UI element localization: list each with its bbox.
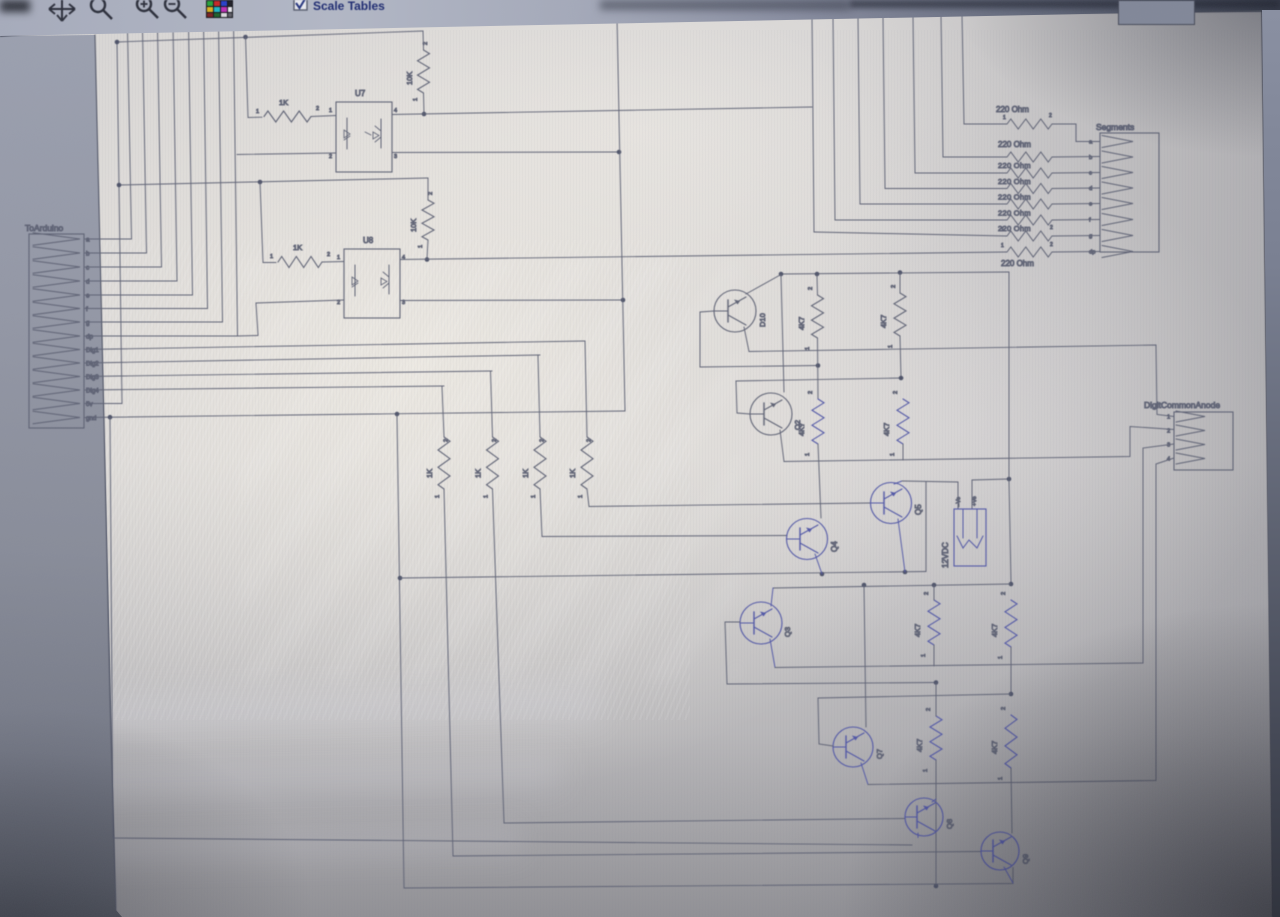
pin 2: [428, 192, 434, 195]
resistor R2 10K: [418, 50, 430, 93]
riser 5v: [117, 42, 122, 404]
wire Q8 collector: [932, 799, 936, 802]
svg-text:e: e: [1089, 202, 1092, 208]
label U8: [363, 236, 374, 245]
svg-text:Dig2: Dig2: [86, 361, 99, 368]
wire gnd long: [85, 411, 625, 418]
junction: [621, 298, 626, 303]
junction: [932, 583, 937, 588]
right scrollbar strip: [1262, 10, 1280, 917]
resistor R4 10K: [422, 200, 434, 240]
junction: [398, 576, 403, 581]
pin 1: [413, 98, 419, 101]
wires segment pins a-dp: [85, 239, 258, 336]
label Segments: [1096, 122, 1134, 132]
label R3 1K: [293, 243, 302, 252]
svg-text:220 Ohm: 220 Ohm: [998, 161, 1031, 170]
wire D10 collector: [746, 275, 781, 295]
pin 1: [921, 654, 927, 657]
svg-text:1: 1: [998, 777, 1004, 780]
junction: [898, 270, 903, 275]
wire R13 bottom: [933, 645, 935, 666]
resistor R11 4K7: [812, 399, 824, 444]
wire 10K2 bottom: [427, 240, 428, 260]
wire Q2 collector riser: [781, 274, 784, 392]
svg-text:g: g: [1089, 234, 1092, 240]
pin 1: [888, 345, 894, 348]
pin 2: [926, 708, 932, 711]
wire R14 bottom: [1010, 647, 1012, 694]
label 1K: [425, 469, 434, 478]
U7 LED: [344, 118, 350, 149]
svg-text:4: 4: [394, 108, 397, 114]
U8 LED: [352, 265, 358, 296]
svg-text:ToArduino: ToArduino: [25, 223, 64, 233]
svg-text:1: 1: [329, 108, 332, 114]
svg-text:2: 2: [1049, 113, 1052, 119]
svg-text:2: 2: [540, 439, 546, 442]
svg-text:2: 2: [587, 439, 593, 442]
label R1 1K: [279, 98, 288, 107]
junction: [117, 183, 122, 188]
pin 1: [998, 656, 1004, 659]
wire row A bottom to pin1: [749, 345, 1174, 417]
svg-text:1: 1: [805, 347, 811, 350]
svg-text:+Ve: +Ve: [972, 496, 978, 506]
svg-text:D10: D10: [758, 313, 767, 327]
junction: [258, 180, 263, 185]
svg-text:b: b: [86, 251, 90, 258]
wire R10 top: [899, 273, 901, 294]
label 1K: [521, 469, 530, 478]
wire 1K R5 top: [442, 386, 444, 437]
svg-text:1: 1: [1167, 415, 1170, 421]
wire Q7 collector riser: [864, 585, 866, 727]
wire gnd mid: [400, 572, 926, 579]
bus row B top: [736, 378, 903, 381]
bus row C top: [773, 584, 1011, 588]
junction: [862, 583, 867, 588]
wire R15 top: [935, 683, 937, 717]
pin 1: [923, 769, 929, 772]
svg-text:4K7: 4K7: [990, 741, 999, 754]
junction: [425, 257, 430, 262]
svg-text:a: a: [86, 237, 90, 244]
junction: [903, 570, 908, 575]
resistor R1 1K: [264, 111, 311, 122]
wire U7 pin4 net: [392, 107, 812, 115]
svg-text:--Ve: --Ve: [956, 497, 962, 507]
wire D10 base: [700, 311, 818, 367]
resistor R6 1K: [487, 437, 499, 489]
transistor Q2: [750, 393, 792, 435]
svg-text:220 Ohm: 220 Ohm: [998, 177, 1031, 186]
wire D10 emitter: [744, 327, 749, 352]
svg-text:3: 3: [394, 154, 397, 160]
svg-text:2: 2: [444, 439, 450, 442]
pin 2: [1001, 592, 1007, 595]
wire Q4 emitter: [815, 554, 822, 574]
zoom out icon: [165, 0, 186, 18]
label DigitCommonAnode: [1144, 400, 1220, 410]
pin 2: [587, 439, 593, 442]
wire 1K R7 top: [538, 355, 540, 437]
svg-text:Q3: Q3: [783, 627, 792, 637]
svg-text:2: 2: [423, 42, 429, 45]
wire gnd bottom: [404, 868, 1013, 889]
sheet top border: [0, 11, 1262, 36]
label D10: [758, 313, 767, 327]
transistor Q5: [871, 483, 912, 524]
svg-text:f: f: [86, 306, 88, 313]
connector J2 Segments: [1100, 133, 1159, 258]
svg-text:gnd: gnd: [86, 415, 97, 422]
segment pin letters: [1089, 140, 1095, 256]
wire R13 top: [933, 585, 935, 600]
svg-text:2: 2: [1050, 242, 1053, 248]
pin 1: [531, 495, 537, 498]
wire R8 bottom to Q5 base: [587, 489, 870, 507]
svg-text:4K7: 4K7: [913, 624, 922, 637]
svg-text:1K: 1K: [293, 243, 302, 252]
transistor Q4: [787, 519, 828, 560]
wire row D bottom to pin4: [868, 458, 1174, 785]
labels 220 Ohm: [996, 105, 1053, 268]
wire R6 bottom to Q8 base: [493, 489, 906, 823]
svg-text:2: 2: [1050, 225, 1053, 231]
sheet left edge: [95, 35, 116, 910]
pin 2: [808, 287, 814, 290]
wire Dig1 net: [85, 341, 585, 350]
pin 1: [270, 254, 273, 260]
svg-text:Q4: Q4: [830, 541, 839, 552]
wire 10K bottom: [423, 93, 426, 114]
label R12 4K7: [882, 423, 891, 436]
U8 pins: [337, 255, 405, 306]
svg-text:220 Ohm: 220 Ohm: [998, 193, 1031, 202]
svg-text:1: 1: [890, 453, 896, 456]
glare bands bottom-left: [0, 683, 600, 738]
wire Q7 emitter: [861, 763, 868, 785]
svg-text:g: g: [86, 320, 90, 327]
pin labels a-gnd: [86, 237, 99, 423]
resistor R16 4K7: [1005, 715, 1017, 768]
svg-text:2: 2: [926, 708, 932, 711]
junction: [1009, 692, 1014, 697]
label Q5: [914, 504, 923, 515]
pin 2: [891, 285, 897, 288]
pin 2: [924, 592, 930, 595]
wire +12V riser: [1008, 272, 1010, 479]
wire R12 bottom: [902, 444, 904, 460]
pin 2: [893, 391, 899, 394]
svg-text:220 Ohm: 220 Ohm: [998, 209, 1031, 218]
pan tool icon: [49, 0, 75, 21]
label 1K: [568, 469, 577, 478]
scrollbar separator: [1262, 11, 1273, 917]
label Q8: [945, 819, 954, 829]
pin 1: [890, 453, 896, 456]
pin 2: [1001, 707, 1007, 710]
label R9 4K7: [797, 317, 806, 330]
bus row D top: [818, 694, 1011, 698]
wire R16 bottom Q9 collector: [1011, 768, 1012, 833]
junction: [816, 363, 821, 368]
junction: [617, 150, 622, 155]
wire Dig4 net: [85, 386, 444, 390]
zoom in icon: [137, 0, 158, 18]
wire Q2 base: [736, 381, 750, 414]
resistor R13 4K7: [928, 600, 940, 645]
wire Q5 collector: [894, 481, 902, 484]
wire R15 bottom: [935, 760, 937, 886]
wire R3-U8: [322, 261, 344, 264]
label Q2: [793, 420, 802, 430]
svg-text:DigitCommonAnode: DigitCommonAnode: [1144, 400, 1220, 410]
color palette icon: [206, 0, 233, 18]
resistor R9 4K7: [812, 295, 824, 338]
pin 1: [418, 245, 424, 248]
svg-text:4K7: 4K7: [882, 423, 891, 436]
wire U7 pin3 net: [392, 151, 619, 154]
junction: [243, 35, 248, 40]
junction: [934, 680, 939, 685]
svg-text:2: 2: [329, 154, 332, 160]
label R10 4K7: [879, 315, 888, 328]
U7 phototransistor: [365, 119, 381, 148]
svg-text:1: 1: [270, 254, 273, 260]
wire R9 bottom: [817, 338, 820, 399]
svg-text:1: 1: [805, 453, 811, 456]
pin 2: [444, 439, 450, 442]
label 1K: [474, 469, 483, 478]
svg-text:4K7: 4K7: [990, 624, 999, 637]
svg-text:2: 2: [891, 285, 897, 288]
wire R10 bottom: [900, 336, 901, 378]
wire Q3 base: [725, 622, 936, 684]
svg-text:1: 1: [413, 98, 419, 101]
svg-text:1: 1: [484, 495, 490, 498]
svg-text:4K7: 4K7: [797, 423, 806, 436]
resistor R14 4K7: [1005, 600, 1017, 647]
svg-text:4K7: 4K7: [797, 317, 806, 330]
wire battery +Ve: [972, 479, 1009, 509]
svg-text:Dig3: Dig3: [86, 374, 99, 381]
bus 5v lower: [119, 178, 428, 185]
pin 2: [492, 439, 498, 442]
svg-text:1: 1: [531, 495, 537, 498]
pin 2: [316, 106, 319, 112]
wire Q2 emitter: [780, 430, 784, 462]
pin 1: [435, 495, 441, 498]
digit pin numbers: [1167, 415, 1171, 463]
transistor Q3: [740, 602, 782, 644]
wire 1K R3 feed: [260, 182, 276, 263]
pin 1: [484, 495, 490, 498]
label R14 4K7: [990, 624, 999, 637]
wire Q3 collector: [771, 588, 773, 606]
resistor R10 4K7: [894, 293, 906, 336]
wire row C bottom to pin3: [775, 444, 1174, 668]
U7 pins: [329, 108, 397, 160]
wire 1K R8 top: [585, 341, 587, 437]
junction: [899, 376, 904, 381]
wire 1K R6 top: [491, 371, 493, 437]
label Q9: [1021, 854, 1030, 864]
wire U7 pin2: [237, 153, 336, 155]
svg-text:220 Ohm: 220 Ohm: [1001, 259, 1034, 268]
label R13 4K7: [913, 624, 922, 637]
svg-text:2: 2: [893, 391, 899, 394]
svg-text:1: 1: [888, 345, 894, 348]
wire Dig3 net: [85, 371, 492, 377]
svg-text:Segments: Segments: [1096, 122, 1134, 132]
svg-text:Q9: Q9: [1021, 854, 1030, 864]
wire U8 pin3 net: [400, 299, 623, 302]
battery BT1 12VDC: [954, 509, 986, 566]
svg-text:Dig1: Dig1: [86, 347, 99, 354]
junction: [115, 40, 120, 45]
svg-text:10K: 10K: [409, 219, 418, 232]
svg-text:e: e: [86, 293, 90, 300]
wire gnd opto riser: [617, 18, 625, 411]
transistor Q9: [981, 832, 1019, 870]
svg-text:1: 1: [256, 109, 259, 115]
wire gnd drop: [397, 414, 404, 888]
resistor R12 4K7: [897, 399, 909, 444]
svg-text:1K: 1K: [568, 469, 577, 478]
junction: [108, 415, 113, 420]
svg-text:f: f: [1089, 218, 1091, 224]
svg-text:1: 1: [435, 495, 441, 498]
label Q4: [830, 541, 839, 552]
svg-text:2: 2: [1001, 592, 1007, 595]
resistor R8 1K: [581, 437, 593, 489]
label R16 4K7: [990, 741, 999, 754]
svg-text:1: 1: [337, 255, 340, 261]
wire Dig2 net: [85, 355, 540, 363]
label 12VDC: [941, 542, 950, 568]
svg-text:a: a: [1089, 140, 1093, 146]
svg-text:U8: U8: [363, 236, 374, 245]
wire gnd loop left: [110, 417, 912, 845]
svg-text:d: d: [86, 279, 90, 286]
svg-text:2: 2: [337, 300, 340, 306]
svg-text:2: 2: [808, 391, 814, 394]
svg-text:c: c: [86, 265, 89, 272]
transistor Q8: [905, 798, 943, 836]
junction: [1009, 582, 1014, 587]
pin 2: [423, 42, 429, 45]
connector J1 ToArduino: [29, 233, 84, 428]
wire R7 bottom to Q4 base: [540, 489, 787, 537]
wire R11-Q4 collector: [818, 444, 821, 518]
pin 1: [805, 347, 811, 350]
svg-text:10K: 10K: [405, 72, 414, 85]
svg-text:1: 1: [1001, 243, 1004, 249]
pin 1: [256, 109, 259, 115]
svg-text:U7: U7: [355, 89, 366, 98]
svg-text:dp: dp: [86, 334, 93, 341]
svg-text:3: 3: [1167, 443, 1170, 449]
risers segment drops right: [812, 14, 964, 232]
svg-text:4K7: 4K7: [915, 739, 924, 752]
junction: [1007, 477, 1012, 482]
svg-text:1: 1: [418, 245, 424, 248]
U8 phototransistor: [381, 265, 389, 294]
wire 10K2 top: [427, 178, 429, 200]
svg-text:1: 1: [923, 769, 929, 772]
resistor R7 1K: [534, 437, 546, 489]
label Q3: [783, 627, 792, 637]
junction: [934, 884, 939, 889]
resistor R5 1K: [438, 437, 450, 489]
svg-text:1K: 1K: [474, 469, 483, 478]
wire 5v stub: [85, 403, 122, 405]
svg-text:1K: 1K: [521, 469, 530, 478]
wire 1K R1 feed: [246, 37, 263, 118]
junction: [422, 112, 427, 117]
junction: [779, 272, 784, 277]
wire Q5 emitter: [898, 519, 905, 572]
svg-text:Scale Tables: Scale Tables: [313, 0, 385, 13]
bus 5v upper: [117, 31, 423, 42]
svg-text:1: 1: [1003, 115, 1006, 121]
resistor R3 1K: [278, 257, 322, 268]
svg-text:Dig4: Dig4: [86, 388, 99, 395]
wire U8 pin2: [256, 300, 344, 335]
wire R1-U7: [311, 116, 336, 117]
transistor D10: [714, 290, 756, 332]
junction: [815, 272, 820, 277]
svg-text:2: 2: [808, 287, 814, 290]
svg-text:2: 2: [428, 192, 434, 195]
connector J3 DigitCommonAnode: [1174, 411, 1233, 470]
svg-text:dp: dp: [1089, 250, 1095, 256]
svg-text:220 Ohm: 220 Ohm: [996, 105, 1029, 114]
svg-text:2: 2: [924, 592, 930, 595]
wire battery -Ve: [902, 481, 958, 572]
svg-text:4: 4: [402, 255, 405, 261]
resistor R15 4K7: [930, 716, 942, 760]
pin 2: [540, 439, 546, 442]
svg-text:b: b: [1089, 155, 1092, 161]
svg-text:Q7: Q7: [875, 749, 884, 759]
wire row B bottom to pin2: [784, 427, 1174, 462]
wire 220 row1 jog: [1052, 124, 1100, 142]
left gray app background strip: [0, 0, 122, 917]
wires 220 feeds: [814, 124, 1007, 236]
wires 220 to pins: [1052, 157, 1100, 253]
svg-text:2: 2: [492, 439, 498, 442]
svg-text:12VDC: 12VDC: [941, 542, 950, 568]
optocoupler U7: [336, 102, 392, 172]
pin 2: [327, 252, 330, 258]
svg-text:Q5: Q5: [914, 504, 923, 515]
risers segments a-dp: [128, 24, 238, 336]
pin 2: [808, 391, 814, 394]
svg-text:5v: 5v: [86, 401, 93, 408]
wire Q7 base: [818, 698, 833, 746]
bus row A top: [781, 272, 1009, 274]
svg-text:d: d: [1089, 186, 1092, 192]
wire Q9 emitter: [1004, 867, 1013, 883]
zoom tool icon: [91, 0, 112, 19]
svg-text:Q8: Q8: [945, 819, 954, 829]
svg-text:1K: 1K: [425, 469, 434, 478]
pin 1: [805, 453, 811, 456]
label R15 4K7: [915, 739, 924, 752]
